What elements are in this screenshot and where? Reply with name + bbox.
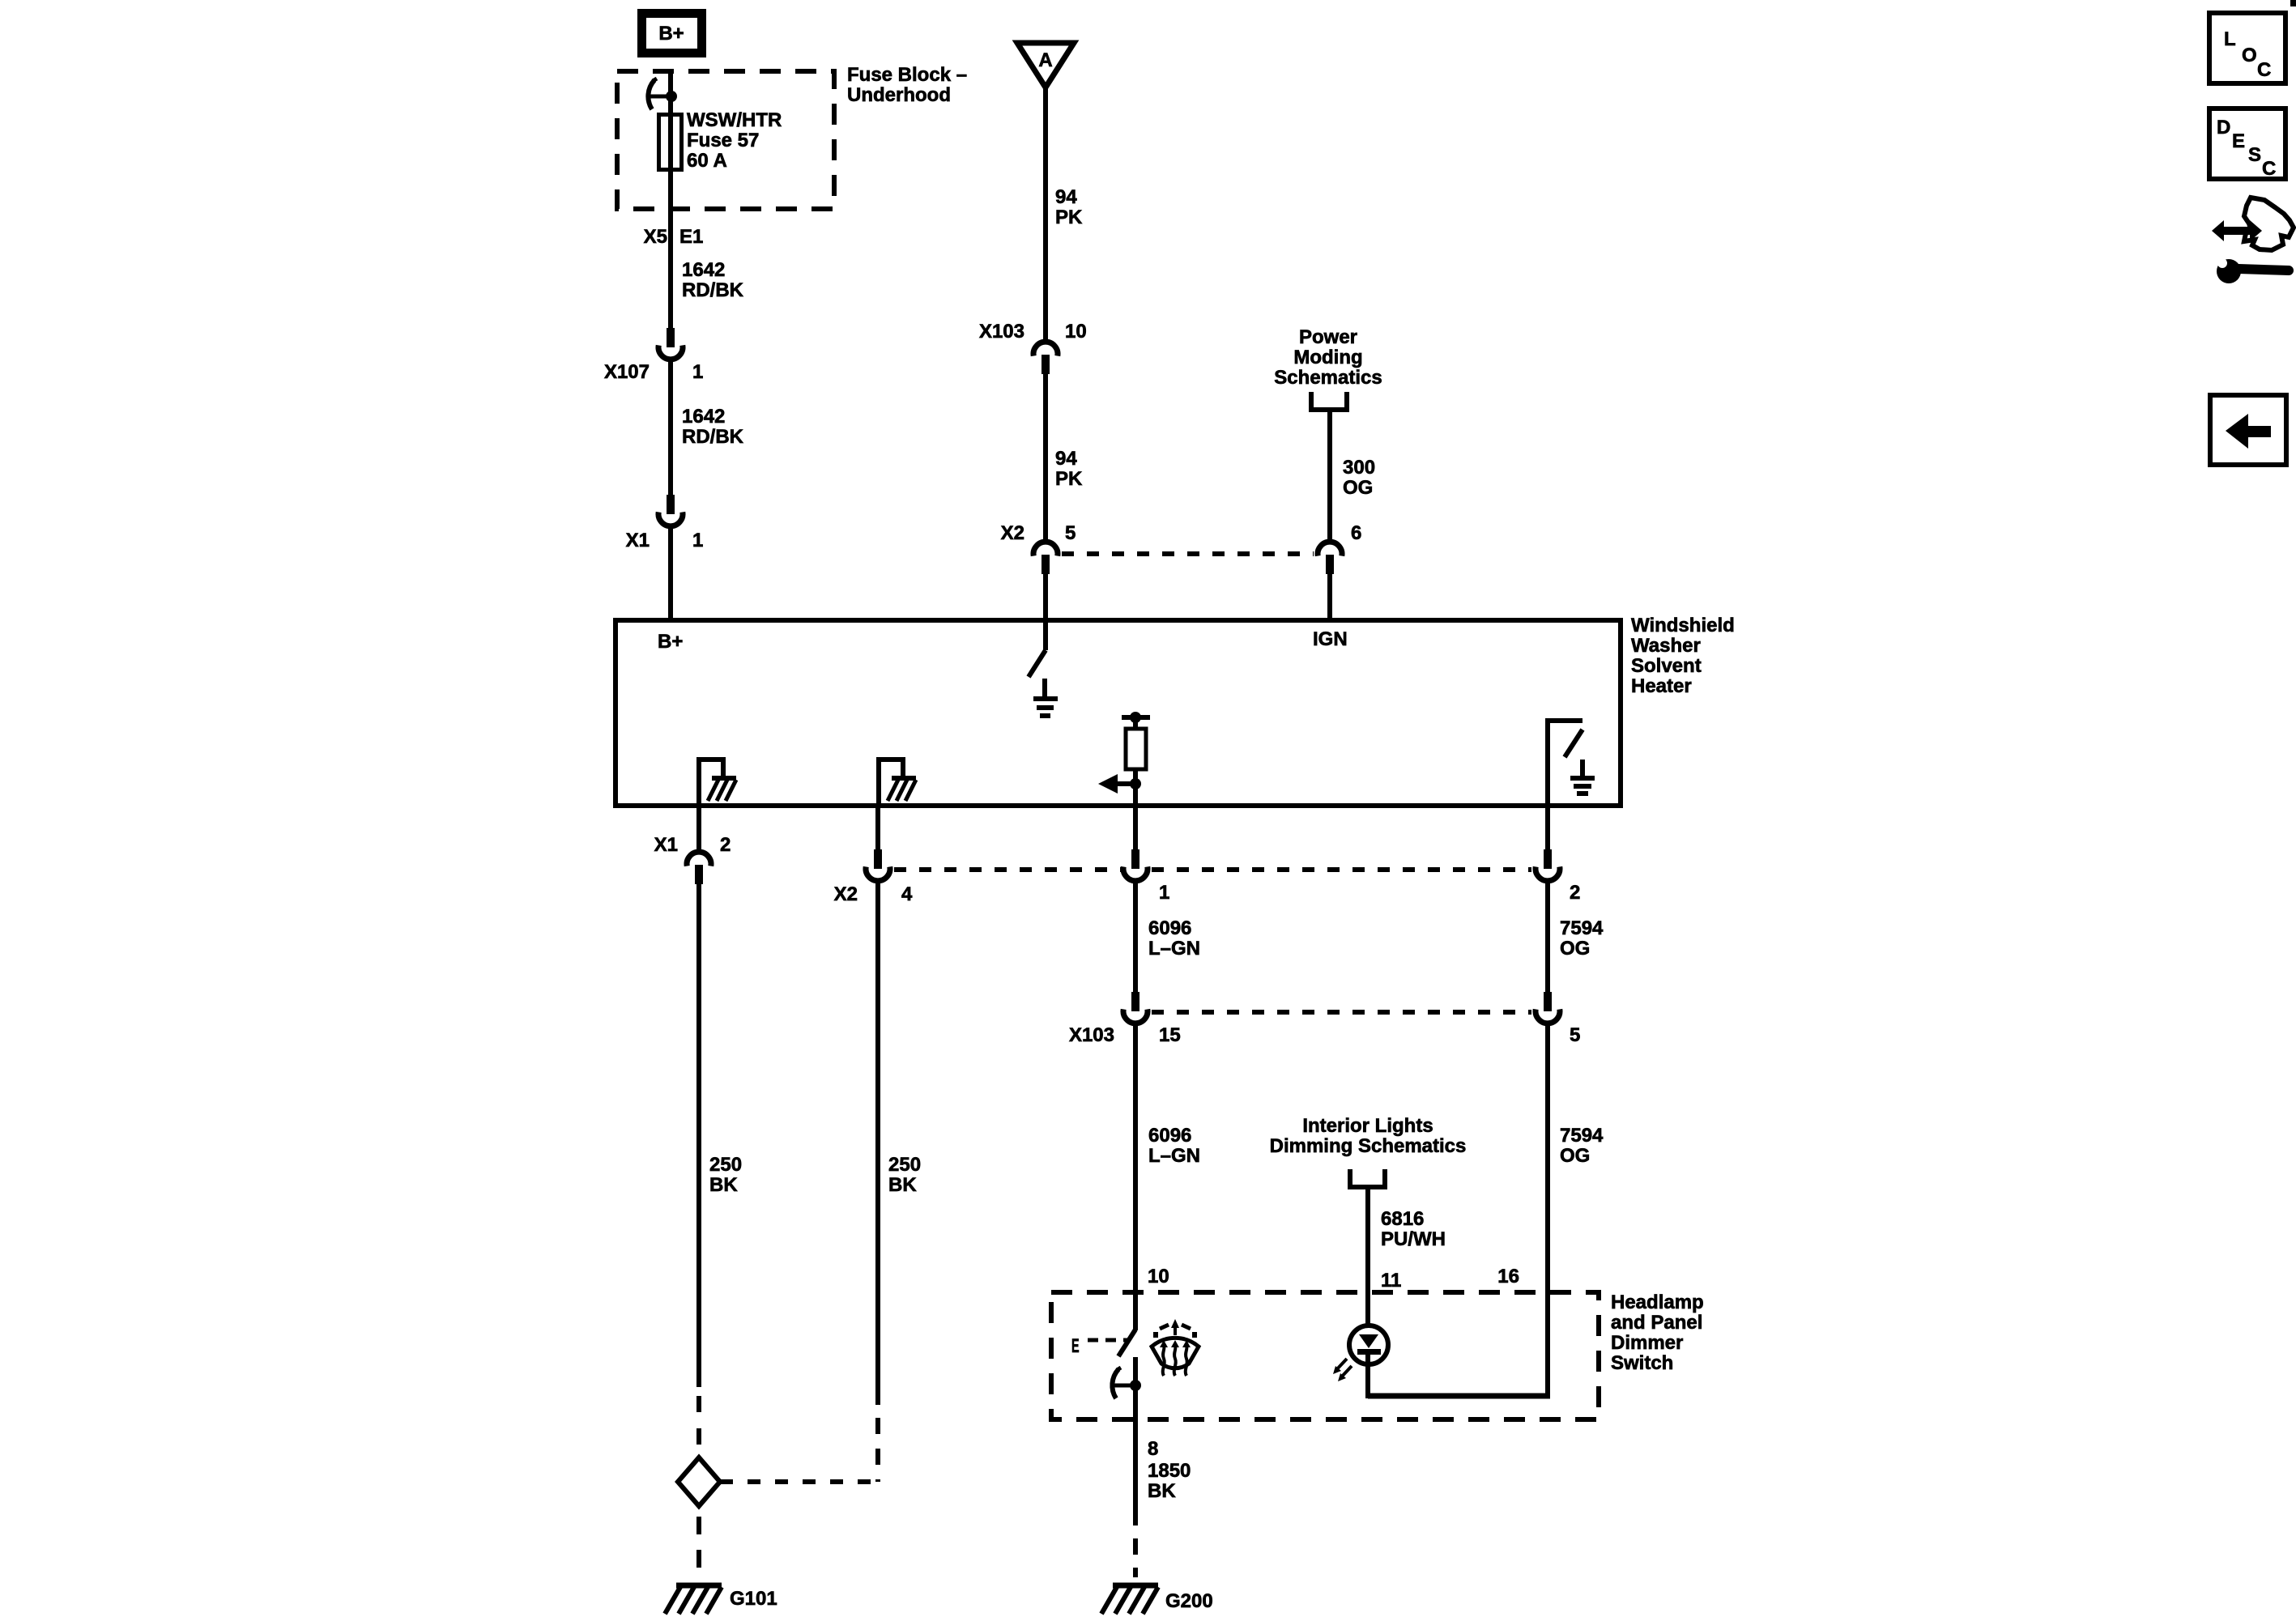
svg-text:60 A: 60 A [687, 150, 727, 172]
svg-text:Dimming Schematics: Dimming Schematics [1270, 1135, 1467, 1157]
svg-text:X1: X1 [626, 530, 650, 551]
svg-text:X5: X5 [644, 226, 667, 248]
svg-text:O: O [2242, 45, 2257, 66]
svg-text:10: 10 [1148, 1266, 1169, 1287]
svg-text:6096: 6096 [1148, 1125, 1191, 1147]
svg-text:1: 1 [692, 530, 703, 551]
svg-text:Fuse 57: Fuse 57 [687, 130, 759, 151]
svg-text:6096: 6096 [1148, 917, 1191, 939]
svg-text:BK: BK [888, 1174, 917, 1196]
svg-text:PU/WH: PU/WH [1381, 1228, 1446, 1250]
svg-text:E: E [2232, 130, 2245, 152]
svg-text:X103: X103 [1069, 1024, 1114, 1046]
svg-text:7594: 7594 [1560, 917, 1604, 939]
svg-text:300: 300 [1343, 457, 1375, 479]
svg-text:250: 250 [709, 1154, 742, 1176]
svg-text:94: 94 [1055, 186, 1077, 208]
svg-text:Washer: Washer [1631, 635, 1701, 657]
svg-text:RD/BK: RD/BK [682, 426, 744, 448]
svg-text:Underhood: Underhood [847, 84, 951, 106]
svg-text:Power: Power [1299, 326, 1357, 348]
svg-text:Moding: Moding [1293, 347, 1362, 368]
svg-text:4: 4 [901, 883, 913, 905]
svg-text:OG: OG [1560, 1145, 1590, 1167]
svg-text:X107: X107 [604, 361, 650, 383]
svg-text:D: D [2217, 117, 2230, 138]
svg-text:BK: BK [709, 1174, 738, 1196]
svg-text:5: 5 [1065, 522, 1076, 544]
svg-text:IGN: IGN [1313, 628, 1348, 650]
svg-text:Dimmer: Dimmer [1611, 1332, 1683, 1354]
svg-text:10: 10 [1065, 321, 1087, 343]
svg-text:X2: X2 [1001, 522, 1024, 544]
svg-text:Schematics: Schematics [1274, 367, 1382, 389]
svg-text:B+: B+ [658, 23, 684, 45]
svg-text:G200: G200 [1165, 1590, 1213, 1612]
svg-text:Interior Lights: Interior Lights [1302, 1115, 1433, 1137]
svg-text:11: 11 [1381, 1270, 1401, 1291]
svg-text:E1: E1 [679, 226, 703, 248]
svg-text:Fuse Block –: Fuse Block – [847, 64, 967, 86]
svg-text:8: 8 [1148, 1438, 1158, 1460]
svg-text:Switch: Switch [1611, 1352, 1673, 1374]
svg-text:X1: X1 [654, 834, 678, 856]
svg-text:5: 5 [1570, 1024, 1580, 1046]
svg-text:2: 2 [720, 834, 731, 856]
svg-text:Solvent: Solvent [1631, 655, 1702, 677]
svg-text:X2: X2 [834, 883, 858, 905]
svg-text:and Panel: and Panel [1611, 1312, 1702, 1334]
svg-text:S: S [2248, 144, 2261, 166]
svg-text:L: L [2224, 28, 2236, 50]
svg-text:WSW/HTR: WSW/HTR [687, 109, 782, 131]
svg-text:RD/BK: RD/BK [682, 279, 744, 301]
svg-text:C: C [2257, 59, 2271, 81]
svg-text:250: 250 [888, 1154, 921, 1176]
svg-text:A: A [1038, 49, 1052, 71]
svg-text:PK: PK [1055, 468, 1083, 490]
svg-text:L–GN: L–GN [1148, 1145, 1200, 1167]
svg-text:X103: X103 [979, 321, 1024, 343]
svg-text:1850: 1850 [1148, 1460, 1191, 1482]
svg-text:7594: 7594 [1560, 1125, 1604, 1147]
svg-text:Heater: Heater [1631, 675, 1692, 697]
svg-text:6: 6 [1351, 522, 1361, 544]
svg-text:1642: 1642 [682, 406, 725, 428]
svg-text:16: 16 [1497, 1266, 1519, 1287]
svg-text:1: 1 [1159, 882, 1169, 904]
svg-text:1: 1 [692, 361, 703, 383]
svg-text:2: 2 [1570, 882, 1580, 904]
svg-text:B+: B+ [658, 631, 683, 653]
svg-text:BK: BK [1148, 1480, 1176, 1502]
svg-text:C: C [2262, 158, 2276, 180]
svg-text:6816: 6816 [1381, 1208, 1424, 1230]
svg-text:94: 94 [1055, 448, 1077, 470]
svg-text:L–GN: L–GN [1148, 938, 1200, 960]
svg-text:PK: PK [1055, 206, 1083, 228]
svg-text:Windshield: Windshield [1631, 615, 1735, 636]
svg-text:Headlamp: Headlamp [1611, 1291, 1704, 1313]
svg-text:15: 15 [1159, 1024, 1181, 1046]
svg-text:1642: 1642 [682, 259, 725, 281]
svg-text:OG: OG [1560, 938, 1590, 960]
svg-text:OG: OG [1343, 477, 1373, 499]
svg-text:E: E [1071, 1335, 1080, 1357]
svg-text:G101: G101 [730, 1588, 777, 1610]
